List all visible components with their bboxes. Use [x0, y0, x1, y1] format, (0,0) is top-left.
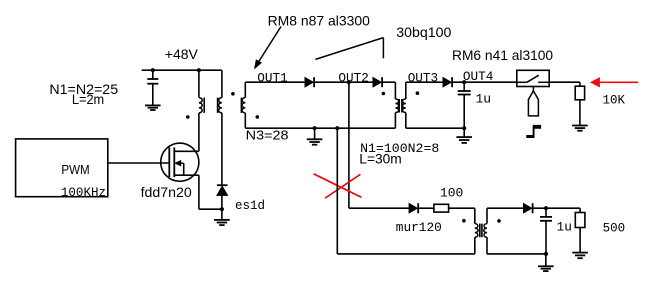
ground under 10K [579, 100, 581, 126]
ground under C3 [545, 254, 547, 266]
ground under C2 [463, 128, 465, 137]
svg-text:mur120: mur120 [396, 220, 442, 235]
wire OUT2 tap down (line B) [348, 82, 350, 208]
transformer T3 left winding [474, 208, 476, 223]
ground under es1d [221, 209, 223, 220]
svg-text:500: 500 [603, 221, 626, 236]
transformer T1 secondary winding N3 [244, 82, 246, 97]
svg-text:fdd7n20: fdd7n20 [141, 184, 192, 200]
diode D3 [443, 78, 451, 87]
svg-text:+48V: +48V [165, 46, 199, 62]
wire reset winding N2 top stub [221, 70, 223, 97]
wire T3 right loop top [487, 207, 524, 209]
wire top rail D2 to T2 [383, 81, 396, 83]
wire top rail D3 to switch box [453, 81, 517, 83]
svg-text:10K: 10K [603, 92, 626, 107]
node junction MOSFET source / es1d anode [220, 207, 224, 211]
phase dot T1 N1 (bottom-left) [186, 115, 190, 119]
wire PWM output to gate [108, 162, 170, 164]
ground under C1 [145, 104, 161, 106]
transformer T1 primary winding N1 [199, 98, 202, 113]
svg-text:OUT4: OUT4 [463, 69, 493, 84]
phase dot T2 right [416, 91, 420, 95]
wire N1 top stub [198, 70, 200, 97]
diode D5 output rectifier [524, 204, 532, 213]
wire N1 bottom to MOSFET drain [198, 113, 200, 151]
wire OUT1/OUT2 loop bottom [245, 127, 395, 129]
svg-text:RM6 n41 al3100: RM6 n41 al3100 [452, 47, 553, 63]
node junction output / C3 top [544, 206, 548, 210]
svg-text:es1d: es1d [235, 198, 265, 213]
transformer T2 left winding N1=100 [394, 82, 396, 99]
wire R100 to T3 [449, 207, 475, 209]
svg-text:N3=28: N3=28 [246, 128, 289, 143]
transformer T2 right winding N2=8 [405, 82, 407, 99]
wire D4 to R100 [419, 207, 434, 209]
node junction C3 bottom [544, 252, 548, 256]
svg-text:1u: 1u [557, 219, 572, 234]
wire +48V rail [142, 69, 222, 71]
annotation leader arrow from RM8 label to T1 [258, 27, 282, 64]
capacitor C2 1u output filter [463, 82, 465, 91]
svg-text:PWM: PWM [61, 163, 89, 177]
phase dot T3 right [497, 219, 501, 223]
svg-text:100: 100 [440, 186, 463, 201]
diode D2 (30bq100) [373, 78, 381, 87]
diode D4 mur120 [409, 204, 417, 213]
annotation leader lines from 30bq100 label to diodes [315, 38, 383, 60]
node junction OUT4 / C2 top [462, 80, 466, 84]
phase dot T3 left [462, 219, 466, 223]
svg-text:L=2m: L=2m [72, 91, 104, 107]
svg-text:1u: 1u [476, 92, 492, 107]
node junction C1 on +48V rail [151, 68, 155, 72]
wire N2 bottom to diode es1d cathode [221, 113, 223, 185]
wire D5 to output node [533, 207, 580, 209]
phase dot T1 N3 (bottom-right) [255, 115, 259, 119]
resistor R3 500 load [579, 208, 581, 212]
svg-text:100KHz: 100KHz [61, 185, 106, 200]
transistor Q1 fdd7n20 n-channel MOSFET [161, 143, 199, 181]
transformer T1 reset winding N2 [219, 98, 222, 113]
transformer T3 right winding [486, 208, 488, 223]
annotation red X cross-out [314, 174, 362, 198]
wire bottom-wire tap down and bottom rail (line A) [336, 128, 338, 254]
switch S1 (controlled switch box) [517, 70, 549, 86]
node junction line-A tap on bottom wire [335, 126, 339, 130]
diode D1 (30bq100) [305, 78, 313, 87]
wire switch to 10K resistor [549, 81, 580, 83]
wire top rail D1 to D2 [315, 81, 373, 83]
svg-text:RM8 n87 al3300: RM8 n87 al3300 [268, 12, 371, 28]
ground under 500 load [579, 228, 581, 253]
resistor R2 100 [434, 204, 449, 212]
phase dot T2 left [382, 92, 386, 96]
wire MOSFET source down and to junction [198, 175, 200, 209]
capacitor C3 1u output [545, 208, 547, 217]
node junction OUT2 tap [347, 80, 351, 84]
ground under OUT loop bottom wire [314, 128, 316, 139]
node junction N1 tap on +48V rail [197, 68, 201, 72]
annotation red arrow [591, 78, 600, 87]
svg-text:OUT1: OUT1 [257, 70, 287, 85]
resistor R1 10K [575, 86, 584, 100]
switch S1 actuator symbol [532, 86, 534, 91]
wire T3 right loop bottom [487, 253, 546, 255]
box PWM controller [16, 139, 108, 197]
step waveform control symbol [526, 135, 534, 138]
phase dot T1 N2 (top-right) [231, 92, 235, 96]
diode es1d (reset clamp, cathode up) [217, 184, 228, 186]
wire top rail OUT1 segment [245, 81, 305, 83]
svg-text:L=30m: L=30m [359, 152, 401, 167]
capacitor C1 input bulk [152, 70, 154, 79]
svg-text:30bq100: 30bq100 [396, 24, 451, 40]
wire OUT3 loop bottom [406, 127, 464, 129]
svg-text:OUT3: OUT3 [408, 70, 438, 85]
svg-text:OUT2: OUT2 [338, 70, 368, 85]
node junction ground tap on bottom wire [313, 126, 317, 130]
wire top rail OUT3 segment [406, 81, 443, 83]
node junction C2 bottom [462, 126, 466, 130]
